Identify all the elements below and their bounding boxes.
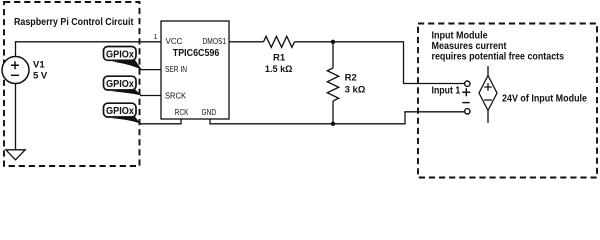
svg-text:3 kΩ: 3 kΩ [345, 85, 366, 96]
svg-text:GPIOx: GPIOx [106, 79, 134, 90]
svg-text:V1: V1 [33, 60, 45, 71]
svg-text:24V of Input Module: 24V of Input Module [502, 94, 587, 105]
svg-text:5 V: 5 V [33, 71, 48, 82]
svg-text:R1: R1 [273, 52, 286, 63]
svg-text:RCK: RCK [175, 108, 189, 117]
svg-text:DMOS1: DMOS1 [203, 37, 227, 46]
svg-text:1.5 kΩ: 1.5 kΩ [265, 64, 293, 75]
svg-text:R2: R2 [345, 73, 357, 84]
svg-text:Measures current: Measures current [432, 41, 508, 52]
svg-text:GPIOx: GPIOx [106, 106, 134, 117]
svg-text:VCC: VCC [166, 37, 183, 46]
svg-text:Raspberry Pi Control Circuit: Raspberry Pi Control Circuit [14, 17, 134, 28]
svg-text:1: 1 [154, 34, 158, 41]
svg-text:SER IN: SER IN [165, 65, 187, 74]
svg-text:requires potential free contac: requires potential free contacts [432, 51, 565, 62]
svg-text:TPIC6C596: TPIC6C596 [173, 47, 220, 59]
svg-text:GPIOx: GPIOx [106, 49, 134, 60]
svg-text:GND: GND [202, 108, 217, 117]
svg-text:Input 1: Input 1 [432, 86, 461, 97]
svg-text:SRCK: SRCK [165, 92, 187, 101]
